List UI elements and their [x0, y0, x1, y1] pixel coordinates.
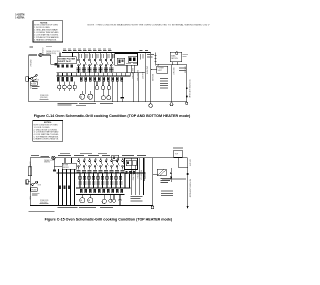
- monitor switch SW s2: [30, 181, 37, 185]
- wire long vertical B with lamp: [149, 53, 152, 108]
- svg-text:1-42STMA: 1-42STMA: [15, 16, 24, 20]
- label thermal cut-out s2: [44, 159, 54, 164]
- stems into filter box: [60, 53, 73, 57]
- svg-text:M: M: [88, 97, 90, 99]
- long vertical wires s2: [144, 158, 154, 209]
- connector CN-A: [54, 63, 57, 66]
- labels under bottom rail: [58, 103, 114, 106]
- oven lamp L2: [107, 90, 111, 100]
- monitor fuse s2: [31, 188, 38, 192]
- vertical wires s2: [80, 173, 130, 188]
- appliance plug P1: [39, 54, 42, 57]
- svg-text:M: M: [88, 200, 90, 202]
- labels above rail s2: [58, 153, 146, 156]
- turntable motor M1: [80, 91, 85, 99]
- text block (power unit notes): [160, 78, 168, 88]
- svg-text:NOTE : THIS CONDITION MEASURED: NOTE : THIS CONDITION MEASURED WITH THE …: [88, 24, 211, 27]
- text row above s2: [162, 178, 186, 179]
- relay unit RY5: [128, 53, 137, 63]
- switch name labels: [76, 54, 114, 72]
- labels in relay enclosure: [126, 62, 137, 65]
- fuse symbols right s2: [170, 168, 172, 182]
- svg-text:GRY BLK RED: GRY BLK RED: [131, 68, 133, 80]
- oven lamp L1: [101, 90, 105, 100]
- stems into filter box s2: [65, 158, 72, 163]
- label power cord s2: [40, 200, 50, 204]
- component on rail s2: [112, 155, 119, 160]
- wire left rail s2: [29, 158, 31, 206]
- wires from relay unit: [127, 65, 138, 101]
- svg-text:FUSE: FUSE: [32, 189, 37, 191]
- wire filter to node s2: [53, 158, 62, 172]
- appliance plug P2: [52, 156, 55, 159]
- components row A s2: [79, 176, 122, 179]
- svg-text:BLK RED: BLK RED: [183, 67, 185, 74]
- svg-text:MONITOR: MONITOR: [33, 80, 40, 82]
- capacitor s2: [119, 194, 122, 205]
- noise filter unit s2: [62, 163, 76, 169]
- oven lamp s2: [102, 194, 106, 203]
- wires between rails: [58, 66, 130, 76]
- turntable motor s2: [80, 194, 85, 203]
- svg-text:WHT BLK: WHT BLK: [29, 60, 31, 68]
- marks under notes box: [30, 46, 53, 48]
- noise filter unit NF1: [57, 57, 76, 64]
- filter components under box: [57, 64, 73, 67]
- left rail labels s2: [28, 162, 30, 201]
- wire mid rail s2: [57, 172, 146, 174]
- svg-text:CUT-OUT: CUT-OUT: [41, 48, 43, 55]
- labels under bottom rail s2: [29, 207, 113, 212]
- monitor switch SW1: [29, 74, 37, 81]
- svg-text:NETRON: NETRON: [171, 58, 178, 60]
- wire from magnetron box: [156, 62, 187, 66]
- label at rail start s2: [31, 154, 39, 157]
- wire plug right s2: [55, 157, 187, 159]
- capacitor C1: [121, 81, 124, 102]
- notes box 2 (top heater conditions): [33, 121, 63, 142]
- fuse F1: [26, 77, 29, 82]
- svg-text:6. HEATER CONTROL RELAY ON.: 6. HEATER CONTROL RELAY ON.: [34, 138, 59, 141]
- svg-text:UNIT N-F: UNIT N-F: [58, 61, 72, 63]
- vertical wires with color labels s2: [132, 158, 146, 195]
- fan motor M2: [88, 91, 93, 99]
- power unit label s2: [161, 178, 171, 183]
- transformer labels: [140, 54, 154, 60]
- text under fuse box s2: [32, 193, 40, 196]
- svg-text:FILTER: FILTER: [63, 167, 69, 169]
- wire top rail: [62, 52, 151, 54]
- wire bottom rail: [29, 101, 187, 103]
- magnetron unit box: [170, 52, 182, 62]
- svg-text:MON: MON: [38, 184, 41, 186]
- relay coils RY1-RY4: [57, 81, 111, 91]
- right vertical s2: [187, 158, 189, 209]
- svg-text:M: M: [80, 97, 82, 99]
- label power cord box: [40, 95, 50, 99]
- arrowhead on right vertical: [186, 86, 188, 89]
- notes box (grill cooking conditions): [33, 21, 63, 42]
- hatched box s2: [153, 169, 167, 176]
- fan motor s2: [88, 194, 93, 203]
- wire color labels mid s2: [78, 182, 122, 185]
- interlock and relay switch row: [78, 53, 114, 68]
- components row s2: [80, 189, 123, 193]
- wire vertical to oven lamp: [170, 65, 174, 106]
- wire mid rail: [57, 72, 146, 74]
- lamp pair s2: [109, 194, 116, 202]
- wire arrow to power unit: [151, 69, 157, 71]
- svg-text:RED WHT BLK: RED WHT BLK: [140, 170, 142, 180]
- power unit box PU: [157, 66, 168, 73]
- door switch box s2: [28, 167, 31, 176]
- wire color labels vertical s1: [131, 66, 153, 82]
- wire rail3 s2: [76, 193, 125, 195]
- svg-text:6. HEATING OPERATION.: 6. HEATING OPERATION.: [34, 38, 57, 41]
- switch labels s2: [76, 170, 124, 173]
- junction dot right vertical s2: [187, 173, 189, 175]
- svg-text:FUSE: FUSE: [31, 83, 36, 85]
- svg-text:M: M: [80, 200, 82, 202]
- monitor fuse F2: [30, 82, 37, 86]
- svg-text:BLU GRY: BLU GRY: [141, 72, 143, 80]
- label noise filter unit: [46, 50, 61, 55]
- wire bottom rail s2: [30, 204, 153, 206]
- junction dot right vertical: [186, 96, 188, 98]
- wire plug to filter: [42, 55, 54, 64]
- relay cluster s2: [125, 158, 138, 169]
- label monitor switch: [33, 80, 40, 84]
- svg-text:WHT RED BLU: WHT RED BLU: [136, 70, 138, 82]
- svg-text:BLK WHT: BLK WHT: [188, 160, 190, 167]
- lamp symbol bottom of right vertical: [186, 102, 188, 104]
- wire left rail: [28, 55, 30, 102]
- text block right s2: [161, 191, 173, 196]
- wire power-cord top: [29, 54, 37, 56]
- labels with arrows right of magnetron: [179, 54, 188, 71]
- text under fuse box s1: [32, 86, 40, 89]
- components under relay box s2: [126, 171, 136, 174]
- left verticals s2: [59, 169, 75, 205]
- wire power-cord top s2: [30, 157, 50, 159]
- wires down to rail s1: [86, 81, 118, 102]
- fuse F s2: [26, 180, 30, 184]
- relay contacts and components row: [57, 77, 123, 81]
- wire right vertical: [186, 65, 188, 102]
- svg-text:ORG WHT: ORG WHT: [145, 66, 147, 74]
- transformer winding column: [154, 52, 156, 65]
- svg-text:WHT BLK: WHT BLK: [28, 162, 30, 169]
- svg-text:Figure C-14 Oven Schematic-Gri: Figure C-14 Oven Schematic-Grill cooking…: [34, 114, 191, 118]
- wire rail 2: [57, 75, 131, 77]
- wire from heater box s2: [178, 157, 188, 167]
- terminal labels on top rail: [63, 48, 148, 51]
- text block left-bottom s2: [131, 196, 143, 201]
- svg-text:RED BRN: RED BRN: [151, 74, 153, 82]
- svg-text:GRY BLU: GRY BLU: [136, 172, 138, 179]
- svg-text:WHT BLK RED: WHT BLK RED: [132, 170, 134, 181]
- label left of plug s2: [41, 155, 50, 158]
- heater box right s2: [173, 148, 183, 158]
- switch row s2: [78, 158, 125, 170]
- svg-text:RED WHT: RED WHT: [172, 68, 174, 75]
- wire rail2 s2: [76, 187, 131, 189]
- relay unit enclosure: [115, 54, 138, 66]
- svg-text:Figure C-15 Oven Schematic-Gri: Figure C-15 Oven Schematic-Grill cooking…: [45, 217, 173, 221]
- svg-text:BRN GRY: BRN GRY: [144, 172, 146, 179]
- wire long vertical A: [144, 53, 146, 102]
- svg-text:UNIT: UNIT: [158, 70, 162, 72]
- page header model numbers: [15, 12, 25, 19]
